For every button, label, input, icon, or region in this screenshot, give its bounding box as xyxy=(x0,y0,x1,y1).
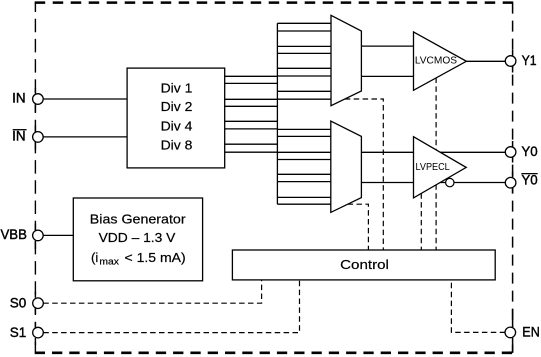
svg-text:LVPECL: LVPECL xyxy=(416,162,450,173)
dashed enable line LVPECL from control xyxy=(420,193,422,250)
wire divider output 7 to bus xyxy=(225,143,278,145)
pin lead stub VBB xyxy=(34,224,36,249)
pin lead stub Y1 xyxy=(512,50,514,73)
dashed enable line LVCMOS from control xyxy=(435,78,437,251)
svg-text:VDD – 1.3 V: VDD – 1.3 V xyxy=(99,230,176,245)
wire divider output 3 to bus xyxy=(225,98,278,100)
svg-text:Div 1: Div 1 xyxy=(161,80,193,95)
svg-text:S1: S1 xyxy=(10,325,27,340)
op-amp U2 LVPECL buffer xyxy=(414,137,467,198)
svg-text:Y1: Y1 xyxy=(522,53,537,68)
pin lead stub S0 xyxy=(34,292,36,315)
dashed EN line to control xyxy=(451,280,505,332)
wire bus to mux M2 input 7 xyxy=(277,196,330,198)
svg-text:< 1.5 mA): < 1.5 mA) xyxy=(125,250,186,265)
svg-text:Div 8: Div 8 xyxy=(161,137,193,152)
wire bus to mux M1 input 1 xyxy=(277,22,331,24)
svg-text:max: max xyxy=(99,257,119,268)
port circle Y0 xyxy=(505,147,516,158)
dashed S0 line to control xyxy=(43,280,261,303)
op-amp U1 LVCMOS buffer xyxy=(414,32,467,90)
svg-text:S0: S0 xyxy=(10,295,27,310)
chip boundary dashed border top xyxy=(35,1,514,4)
overline of INb label xyxy=(13,129,27,131)
wire divider output 2 to bus xyxy=(225,82,278,84)
wire bus to mux M1 input 3 xyxy=(277,45,331,47)
svg-text:IN: IN xyxy=(12,128,26,143)
wire INb to divider xyxy=(43,136,127,138)
wire bus to mux M2 input 5 xyxy=(277,173,330,175)
port circle EN xyxy=(505,327,516,338)
svg-text:VBB: VBB xyxy=(1,227,27,242)
port circle Y1 xyxy=(505,56,516,67)
chip boundary dashed border left xyxy=(34,3,36,353)
wire LVCMOS output to Y1 xyxy=(466,60,505,62)
wire bus to mux M2 input 1 xyxy=(277,128,330,130)
dashed select line mux M1 from control xyxy=(345,99,384,250)
pin lead stub INb xyxy=(34,125,36,149)
wire mux M2 to LVPECL and Y0b xyxy=(361,182,505,184)
port circle IN xyxy=(33,94,44,105)
pin lead stub Y0b xyxy=(512,172,514,194)
wire bus to mux M2 input 3 xyxy=(277,151,330,153)
dashed S1 line to control xyxy=(43,280,299,333)
svg-text:Y0: Y0 xyxy=(521,173,537,188)
svg-text:Control: Control xyxy=(340,257,389,272)
mux M1 xyxy=(331,15,361,105)
wire mux M1 output 1 to LVCMOS buffer xyxy=(361,45,413,47)
port circle Y0b xyxy=(505,177,516,188)
wire bus to mux M2 input 8 xyxy=(277,203,330,205)
port circle VBB xyxy=(33,230,44,241)
pin lead stub IN xyxy=(34,88,36,112)
inversion bubble on LVPECL xyxy=(446,178,454,186)
wire bus to mux M2 input 4 xyxy=(277,159,330,161)
wire divider output 1 to bus xyxy=(225,75,278,77)
pin lead stub Y0 xyxy=(512,141,514,163)
svg-text:Div 4: Div 4 xyxy=(161,118,193,133)
chip boundary dashed border bottom xyxy=(35,351,514,354)
pin lead stub EN xyxy=(512,309,514,353)
svg-text:Y0: Y0 xyxy=(521,144,537,159)
wire vertical bus xyxy=(276,23,278,204)
svg-text:IN: IN xyxy=(12,91,26,106)
dashed select line mux M2 from control xyxy=(348,204,369,250)
svg-text:Bias Generator: Bias Generator xyxy=(90,212,186,227)
wire mux M1 output 2 to LVCMOS buffer xyxy=(361,75,413,77)
wire divider output 4 to bus xyxy=(225,105,278,107)
wire bus to mux M1 input 8 xyxy=(277,98,331,100)
wire bus to mux M2 input 6 xyxy=(277,181,330,183)
wire IN to divider xyxy=(43,98,127,100)
wire bus to mux M1 input 7 xyxy=(277,90,331,92)
svg-text:EN: EN xyxy=(522,325,540,340)
mux M2 xyxy=(331,121,362,212)
wire divider output 8 to bus xyxy=(225,151,278,153)
wire bus to mux M1 input 5 xyxy=(277,67,331,69)
overline of Y0b label xyxy=(521,173,537,175)
port circle S0 xyxy=(33,298,44,309)
wire mux M2 to LVPECL and Y0 xyxy=(361,151,505,153)
wire bus to mux M2 input 2 xyxy=(277,135,330,137)
bias generator box xyxy=(73,198,202,281)
port circle INb xyxy=(33,132,44,143)
divider block box xyxy=(127,68,225,168)
chip boundary dashed border right xyxy=(512,3,514,353)
svg-text:(i: (i xyxy=(91,250,98,265)
wire VBB to bias generator xyxy=(43,234,73,236)
port circle S1 xyxy=(33,327,44,338)
wire bus to mux M1 input 6 xyxy=(277,75,331,77)
control box xyxy=(232,250,495,280)
svg-text:Div 2: Div 2 xyxy=(161,99,193,114)
wire bus to mux M1 input 4 xyxy=(277,52,331,54)
pin lead stub S1 xyxy=(34,322,36,345)
wire divider output 6 to bus xyxy=(225,128,278,130)
wire bus to mux M1 input 2 xyxy=(277,30,331,32)
svg-text:LVCMOS: LVCMOS xyxy=(415,55,457,66)
wire divider output 5 to bus xyxy=(225,120,278,122)
